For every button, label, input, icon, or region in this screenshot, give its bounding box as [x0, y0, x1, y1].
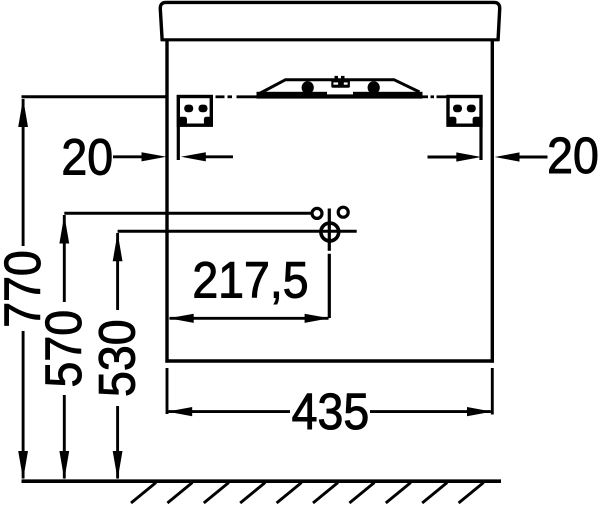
dim 530 vertical line	[116, 233, 119, 310]
left bracket edge extension line	[177, 126, 180, 160]
mounting rail bar	[257, 92, 423, 99]
dim 570 extension line	[64, 212, 311, 215]
svg-text:20: 20	[547, 128, 599, 184]
dim 435 line	[169, 410, 491, 413]
right bracket edge extension line	[479, 126, 482, 160]
rail hole left	[302, 81, 314, 94]
dim 435 arrow right	[467, 407, 492, 416]
dash-dot hidden line left	[216, 95, 263, 98]
svg-text:570: 570	[36, 310, 92, 388]
dim 20 left line and arrows	[113, 152, 233, 161]
svg-text:530: 530	[90, 319, 146, 397]
dim 217,5 line	[170, 317, 329, 320]
dim 770 arrow up	[18, 99, 28, 128]
dim 435 extension line right	[491, 368, 494, 415]
dim 570 arrow down	[59, 451, 69, 480]
rail center clamp	[327, 76, 353, 95]
dim 530 arrow down	[113, 451, 123, 480]
dim 770 vertical line	[22, 99, 25, 246]
fixing hole circle small left	[312, 208, 322, 218]
dim 770 arrow down	[18, 451, 28, 480]
svg-text:217,5: 217,5	[192, 252, 308, 308]
cabinet right side	[491, 41, 494, 363]
washbasin bottom edge	[161, 38, 499, 41]
svg-text:20: 20	[61, 129, 113, 185]
dim 217,5 arrow right	[305, 314, 330, 323]
drain circle	[321, 223, 339, 241]
dim 530 arrow up	[113, 233, 123, 261]
fixing hole circle small right	[338, 207, 348, 217]
right bracket	[448, 97, 481, 126]
dim 20 right line and arrows	[428, 152, 548, 161]
cabinet bottom	[165, 359, 494, 362]
mounting rail trapezoid outline	[260, 80, 420, 94]
dim 217,5 arrow left	[169, 314, 194, 323]
dim 435 arrow left	[167, 407, 192, 416]
ground hatching	[131, 483, 484, 504]
drain centerline vertical	[328, 209, 331, 251]
svg-text:435: 435	[292, 384, 370, 440]
dim 570 vertical line	[63, 215, 66, 302]
cabinet left side	[165, 41, 168, 363]
dash-dot hidden line right	[417, 95, 449, 98]
dim 435 extension line left	[166, 368, 169, 414]
dim 530 extension line	[118, 230, 357, 233]
dim 770 extension line top	[22, 95, 168, 98]
rail hole right	[368, 81, 380, 94]
left bracket	[178, 97, 211, 126]
dim 570 arrow up	[59, 215, 69, 244]
ground line	[22, 479, 502, 483]
washbasin top outline	[160, 2, 499, 41]
